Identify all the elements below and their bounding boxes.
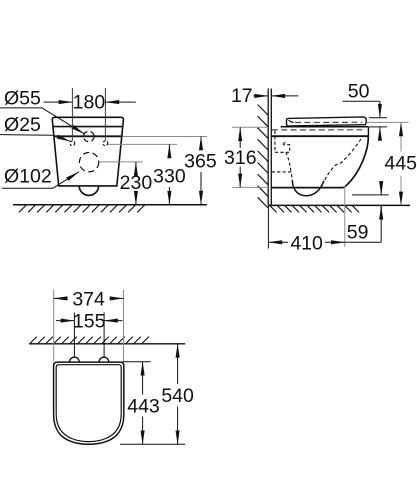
- front view: floor line: [13, 204, 207, 206]
- front view: ceramic rim line: [54, 135, 122, 137]
- dimension 59 reference line: [352, 194, 389, 196]
- dimension 445 text: [384, 152, 417, 174]
- dimension 230 line with arrows: [135, 162, 137, 205]
- dimension 374 extension lines: [54, 290, 124, 362]
- side view: dashed channel to trap: [272, 152, 293, 180]
- dimension 59 arrows: [380, 182, 382, 243]
- svg-text:230: 230: [120, 172, 153, 194]
- dimension 374 text: [72, 288, 105, 310]
- dimension 155 extension lines: [74, 313, 104, 358]
- plan view: body inner outline: [56, 365, 121, 442]
- side view: bowl bottom chamfer: [343, 186, 346, 188]
- side view: dashed seat line below lid: [272, 129, 364, 131]
- dimension 443 top reference line: [122, 361, 150, 363]
- dimension 374 arrows: [54, 297, 124, 299]
- label &#216;102: [4, 165, 52, 187]
- svg-text:445: 445: [384, 152, 417, 174]
- side view: dashed inner bowl profile: [324, 139, 361, 181]
- plan view: wall hatching: [30, 337, 149, 344]
- dimension 365 reference line: [123, 136, 208, 138]
- dimension 410 text: [290, 233, 323, 255]
- dimension 180 extension lines: [72, 88, 105, 141]
- side view: wall extension line below floor: [267, 205, 269, 248]
- dimension 230 text: [120, 172, 153, 194]
- label &#216;102 leader line with arrow: [2, 172, 79, 188]
- side view: wall hatching: [258, 105, 268, 208]
- label &#216;25: [4, 114, 41, 136]
- svg-text:330: 330: [153, 165, 186, 187]
- dimension 365 text: [184, 150, 217, 172]
- dimension 316 line with arrows: [239, 127, 241, 187]
- front view: seat ring line: [53, 126, 123, 128]
- side view: bowl front extension line: [344, 186, 346, 247]
- side view: bowl bottom line: [272, 187, 344, 189]
- dimension 540 text: [161, 385, 194, 407]
- dimension 180 text: [73, 92, 106, 114]
- side view: trap bulge curve: [292, 181, 324, 196]
- plan view: body outer outline: [54, 362, 124, 444]
- front view: trap outlet semicircle: [79, 186, 98, 196]
- dimension 445 line with arrows: [400, 122, 402, 205]
- side view: rim front face: [367, 127, 369, 136]
- dimension 330 text: [153, 165, 186, 187]
- dimension 443 text: [127, 395, 160, 417]
- side view: ceramic rim top line: [272, 135, 369, 137]
- side view: seat lid dashed line: [295, 121, 362, 123]
- svg-text:365: 365: [184, 150, 217, 172]
- svg-text:316: 316: [224, 147, 257, 169]
- svg-text:Ø55: Ø55: [4, 88, 41, 110]
- front view: dashed fixing hole left &#216;25: [70, 141, 75, 146]
- label &#216;25 leader line with arrow: [0, 135, 70, 142]
- side view: seat ring line: [281, 126, 369, 128]
- dimension 443 line with arrows: [142, 362, 144, 445]
- side view: bowl front curve: [346, 136, 368, 185]
- svg-text:50: 50: [348, 80, 370, 102]
- svg-text:540: 540: [161, 385, 194, 407]
- dimension 50 leader and arrows: [343, 101, 380, 140]
- dimension 155 text: [73, 310, 106, 332]
- side view: lid hinge hook: [288, 120, 293, 122]
- front view: floor hatching: [19, 205, 145, 212]
- plan view: left fixing bolt: [70, 357, 80, 362]
- svg-text:Ø102: Ø102: [4, 165, 52, 187]
- svg-text:17: 17: [231, 85, 253, 107]
- svg-text:155: 155: [73, 310, 106, 332]
- dimension 17 text: [231, 85, 253, 107]
- side view: seat lid outline: [287, 117, 367, 126]
- dimension 59 text: [347, 221, 369, 243]
- label &#216;55 leader line with arrow: [0, 108, 84, 134]
- dimension 316 text: [224, 147, 257, 169]
- svg-text:59: 59: [347, 221, 369, 243]
- dimension 50 reference lines: [369, 118, 387, 127]
- plan view: right fixing bolt: [99, 357, 109, 362]
- svg-text:180: 180: [73, 92, 106, 114]
- front view: dashed fixing hole right &#216;25: [103, 141, 108, 146]
- dimension 540 line with arrows: [177, 344, 179, 445]
- dimension 330 line with arrows: [168, 144, 170, 204]
- svg-text:410: 410: [290, 233, 323, 255]
- side view: wall lines: [268, 89, 271, 206]
- front view: toilet body outline: [52, 117, 123, 186]
- side view: floor line: [268, 204, 410, 206]
- side view: floor hatching: [270, 206, 359, 213]
- dimension 330 reference line: [108, 143, 177, 145]
- dimension 365 line with arrows: [200, 137, 202, 205]
- dimension 445 top reference line: [367, 121, 409, 123]
- dimension 180 arrows: [44, 101, 136, 103]
- label &#216;55: [4, 88, 41, 110]
- dimension 230 reference line: [99, 161, 143, 163]
- side view: dashed flush channel: [275, 131, 290, 153]
- plan view: wall line: [29, 343, 185, 345]
- svg-text:Ø25: Ø25: [4, 114, 41, 136]
- dimension 316 reference lines: [232, 127, 268, 187]
- dimension 17 arrows: [254, 95, 299, 97]
- dimension 443 bottom reference line: [120, 443, 185, 445]
- front view: dashed outlet circle &#216;102: [79, 153, 98, 172]
- svg-text:443: 443: [127, 395, 160, 417]
- dimension 50 text: [348, 80, 370, 102]
- svg-text:374: 374: [72, 288, 105, 310]
- dimension 410 line with arrows: [268, 241, 381, 243]
- front view: dashed hole circle &#216;55: [84, 131, 94, 141]
- dimension 155 arrows: [56, 320, 123, 322]
